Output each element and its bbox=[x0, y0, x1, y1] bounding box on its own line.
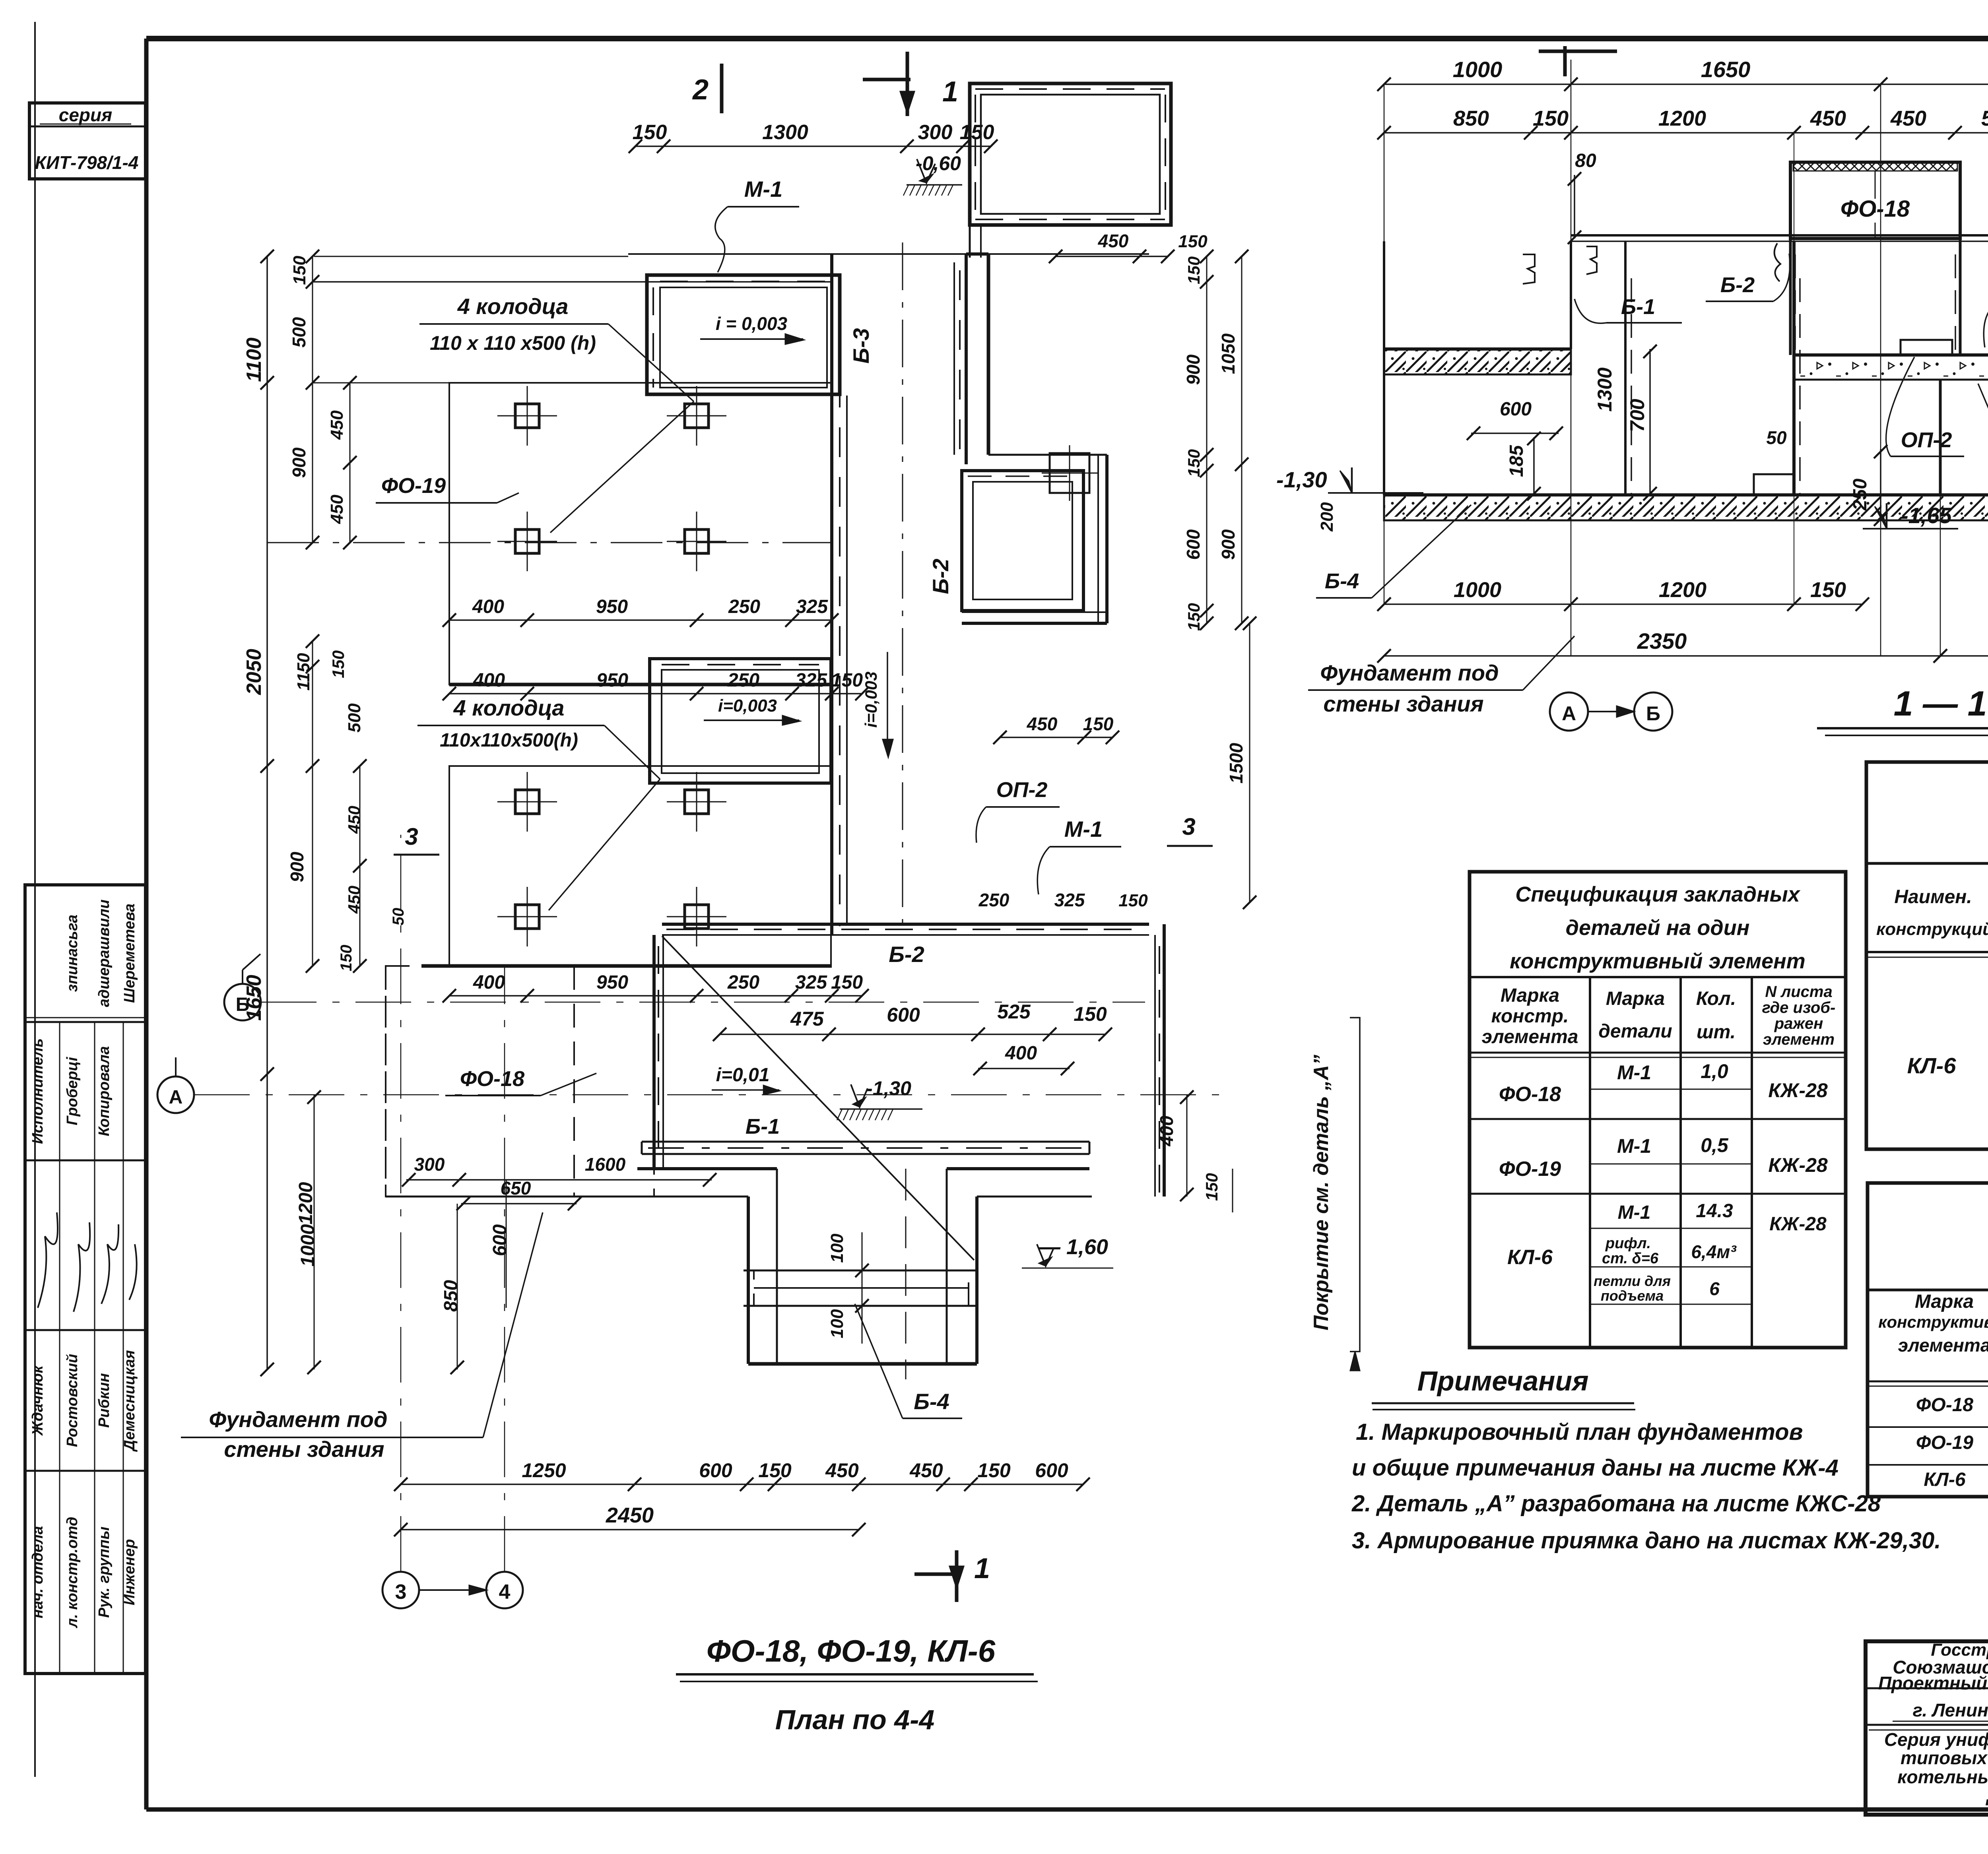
svg-text:150: 150 bbox=[338, 945, 355, 972]
svg-text:конструктивный элемент: конструктивный элемент bbox=[1510, 949, 1806, 973]
svg-text:М-1: М-1 bbox=[1064, 816, 1103, 842]
svg-text:300: 300 bbox=[918, 121, 953, 144]
svg-text:ражен: ражен bbox=[1774, 1015, 1823, 1032]
axis line (900 row) bbox=[267, 542, 831, 543]
section ground line bbox=[1571, 234, 1988, 237]
small cross square (OP-2 anchor) upper bbox=[1050, 453, 1089, 493]
svg-text:КЖ-28: КЖ-28 bbox=[1768, 1079, 1828, 1102]
svg-text:ФО-18: ФО-18 bbox=[1840, 196, 1910, 222]
svg-text:N листа: N листа bbox=[1765, 983, 1832, 1001]
svg-text:-1,30: -1,30 bbox=[866, 1077, 911, 1100]
section marks bottom: 1 bbox=[914, 1573, 960, 1576]
svg-text:110 х 110 х500 (h): 110 х 110 х500 (h) bbox=[430, 332, 596, 354]
OP-2 frames in section bbox=[1901, 340, 1952, 355]
svg-text:1650: 1650 bbox=[1701, 57, 1751, 82]
svg-text:3: 3 bbox=[1182, 813, 1195, 840]
svg-text:600: 600 bbox=[1035, 1459, 1068, 1482]
svg-text:110х110х500(h): 110х110х500(h) bbox=[440, 730, 578, 751]
pit left wall bbox=[1383, 241, 1385, 495]
svg-text:400: 400 bbox=[472, 596, 504, 617]
svg-text:Серия унифицированных: Серия унифицированных bbox=[1884, 1729, 1988, 1750]
FO-18 pedestal bbox=[1790, 162, 1960, 239]
M-1 slab rect (lower) bbox=[650, 659, 831, 783]
svg-text:1: 1 bbox=[942, 76, 958, 108]
svg-text:ст. δ=6: ст. δ=6 bbox=[1602, 1250, 1659, 1267]
svg-text:150: 150 bbox=[1178, 232, 1208, 251]
svg-text:150: 150 bbox=[1074, 1003, 1107, 1025]
svg-text:100: 100 bbox=[827, 1309, 847, 1338]
svg-text:150: 150 bbox=[633, 121, 667, 144]
top mark (section 4) bbox=[1563, 46, 1567, 76]
svg-text:150: 150 bbox=[1184, 449, 1203, 477]
in-room diagonal bbox=[662, 936, 974, 1260]
svg-text:рифл.: рифл. bbox=[1605, 1235, 1651, 1252]
svg-text:475: 475 bbox=[790, 1008, 824, 1030]
svg-text:600: 600 bbox=[887, 1004, 920, 1026]
channel KL-6 right wall bbox=[953, 262, 955, 455]
svg-text:Б-2: Б-2 bbox=[928, 559, 953, 594]
M-1 slab rect (upper) bbox=[647, 275, 840, 394]
svg-text:150: 150 bbox=[290, 256, 309, 285]
table: spec of precast & metal elements bbox=[1866, 762, 1988, 1149]
svg-text:КЛ-6: КЛ-6 bbox=[1507, 1246, 1553, 1269]
svg-text:Б-2: Б-2 bbox=[1720, 273, 1755, 297]
svg-text:300: 300 bbox=[414, 1154, 445, 1175]
svg-text:900: 900 bbox=[1183, 354, 1204, 385]
B-4 hatched beam bbox=[754, 1270, 969, 1306]
svg-text:i=0,003: i=0,003 bbox=[718, 696, 777, 716]
svg-text:где изоб-: где изоб- bbox=[1762, 999, 1836, 1016]
section top dims bbox=[1384, 83, 1988, 85]
section bottom dims bbox=[1384, 603, 1862, 605]
svg-text:ОП-2: ОП-2 bbox=[1901, 428, 1952, 452]
svg-text:500: 500 bbox=[345, 703, 364, 733]
upper-right room A bbox=[970, 83, 1171, 225]
svg-text:Б: Б bbox=[1646, 702, 1660, 725]
B-1 bracket shapes bbox=[1523, 254, 1535, 284]
wells (squares) lower bbox=[515, 790, 539, 814]
svg-text:600: 600 bbox=[1500, 399, 1532, 420]
svg-text:450: 450 bbox=[345, 886, 363, 914]
svg-text:стены здания: стены здания bbox=[224, 1437, 384, 1462]
svg-text:зпинасьга: зпинасьга bbox=[64, 915, 81, 992]
svg-text:3: 3 bbox=[395, 1581, 407, 1604]
svg-text:1300: 1300 bbox=[1594, 367, 1616, 411]
svg-text:450: 450 bbox=[327, 495, 347, 524]
svg-text:Ростовский: Ростовский bbox=[64, 1354, 81, 1447]
svg-text:1150: 1150 bbox=[294, 653, 313, 690]
svg-text:1: 1 bbox=[974, 1553, 990, 1584]
svg-text:Б-1: Б-1 bbox=[1621, 295, 1655, 319]
svg-text:850: 850 bbox=[1453, 107, 1489, 130]
svg-text:525: 525 bbox=[997, 1001, 1031, 1023]
svg-text:900: 900 bbox=[287, 851, 307, 882]
svg-text:стены здания: стены здания bbox=[1323, 691, 1483, 716]
svg-text:ФО-18, ФО-19, КЛ-6: ФО-18, ФО-19, КЛ-6 bbox=[707, 1633, 996, 1668]
svg-text:Инженер: Инженер bbox=[121, 1539, 138, 1606]
svg-text:М-1: М-1 bbox=[1617, 1135, 1651, 1157]
svg-text:i=0,01: i=0,01 bbox=[716, 1065, 770, 1086]
svg-text:Копировала: Копировала bbox=[96, 1046, 113, 1136]
svg-text:1 — 1: 1 — 1 bbox=[1894, 684, 1987, 723]
svg-text:1300: 1300 bbox=[762, 121, 808, 144]
svg-text:КЖ-28: КЖ-28 bbox=[1769, 1214, 1827, 1235]
walls under FO-18 bbox=[1789, 239, 1792, 355]
svg-text:-1,65: -1,65 bbox=[1901, 503, 1952, 528]
svg-text:450: 450 bbox=[1027, 714, 1058, 734]
svg-text:Исполнитель: Исполнитель bbox=[29, 1038, 46, 1144]
OP-2 room below bbox=[962, 471, 1083, 611]
svg-text:1200: 1200 bbox=[295, 1182, 316, 1224]
svg-text:л. констр.отд: л. констр.отд bbox=[64, 1517, 81, 1629]
svg-text:600: 600 bbox=[699, 1459, 732, 1482]
svg-text:Спецификация закладных: Спецификация закладных bbox=[1515, 882, 1800, 906]
svg-text:ФО-18: ФО-18 bbox=[1499, 1083, 1561, 1106]
svg-text:Марка: Марка bbox=[1606, 988, 1665, 1009]
svg-text:250: 250 bbox=[1850, 479, 1871, 511]
left dim chains bbox=[266, 256, 268, 1369]
svg-text:100: 100 bbox=[827, 1233, 847, 1263]
svg-text:450: 450 bbox=[1098, 231, 1129, 251]
svg-text:Ждачнюк: Ждачнюк bbox=[29, 1365, 46, 1436]
svg-text:петли для: петли для bbox=[1594, 1273, 1671, 1289]
svg-text:1650: 1650 bbox=[243, 975, 266, 1021]
svg-text:150: 150 bbox=[1202, 1173, 1221, 1201]
svg-text:325: 325 bbox=[796, 596, 828, 617]
svg-text:150: 150 bbox=[1184, 603, 1203, 631]
svg-text:80: 80 bbox=[1575, 150, 1596, 171]
pit bottom hatched strip bbox=[1384, 495, 1988, 520]
svg-text:500: 500 bbox=[1981, 107, 1988, 130]
svg-text:2: 2 bbox=[692, 74, 709, 106]
svg-text:250: 250 bbox=[978, 890, 1010, 910]
lower big room bbox=[662, 923, 1149, 926]
svg-text:150: 150 bbox=[1118, 891, 1148, 910]
svg-text:Проектный институт№1: Проектный институт№1 bbox=[1878, 1673, 1988, 1693]
svg-text:Б-4: Б-4 bbox=[914, 1389, 949, 1414]
svg-text:450: 450 bbox=[327, 410, 347, 440]
table: concrete and steel consumption bbox=[1868, 1183, 1988, 1497]
svg-text:нач. отдела: нач. отдела bbox=[29, 1526, 46, 1618]
channel KL-6 left wall bbox=[830, 254, 833, 935]
svg-text:450: 450 bbox=[909, 1459, 943, 1482]
svg-text:1. Маркировочный план фундамен: 1. Маркировочный план фундаментов bbox=[1356, 1419, 1803, 1445]
svg-text:Шереметева: Шереметева bbox=[121, 904, 138, 1003]
svg-text:подъема: подъема bbox=[1601, 1288, 1664, 1304]
svg-text:150: 150 bbox=[1810, 578, 1846, 602]
svg-text:600: 600 bbox=[1183, 529, 1204, 560]
B-2 squiggle wall top left of FO-18 bbox=[1774, 243, 1780, 281]
svg-text:450: 450 bbox=[1810, 107, 1846, 130]
svg-text:Марка: Марка bbox=[1915, 1291, 1974, 1312]
svg-text:котельных с котлами: котельных с котлами bbox=[1897, 1767, 1988, 1787]
svg-text:Кол.: Кол. bbox=[1696, 988, 1736, 1009]
svg-text:и общие примечания даны на лис: и общие примечания даны на листе КЖ-4 bbox=[1352, 1455, 1839, 1481]
svg-text:А: А bbox=[169, 1087, 183, 1108]
svg-text:серия: серия bbox=[59, 105, 112, 125]
axes circles 3 and 4 bbox=[382, 1572, 419, 1608]
svg-text:КЛ-6: КЛ-6 bbox=[1907, 1053, 1957, 1078]
svg-text:250: 250 bbox=[727, 972, 759, 993]
step 50 notch bbox=[1754, 474, 1794, 495]
svg-text:150: 150 bbox=[329, 650, 348, 678]
room floor lines and pit bbox=[637, 1167, 777, 1170]
svg-text:950: 950 bbox=[596, 596, 628, 617]
svg-text:400: 400 bbox=[1156, 1115, 1177, 1146]
svg-text:типовых проектов: типовых проектов bbox=[1901, 1747, 1988, 1768]
svg-text:Демесницкая: Демесницкая bbox=[121, 1350, 138, 1452]
svg-text:325: 325 bbox=[795, 670, 827, 691]
svg-text:50: 50 bbox=[1766, 427, 1787, 448]
svg-text:2050: 2050 bbox=[243, 649, 266, 695]
svg-text:50: 50 bbox=[390, 908, 407, 926]
svg-text:КЖ-28: КЖ-28 bbox=[1768, 1154, 1828, 1176]
svg-text:М-1: М-1 bbox=[1617, 1061, 1651, 1084]
svg-text:950: 950 bbox=[596, 670, 628, 691]
svg-text:Наимен.: Наимен. bbox=[1894, 886, 1972, 908]
svg-text:1200: 1200 bbox=[1658, 107, 1706, 130]
svg-text:деталей на один: деталей на один bbox=[1566, 916, 1750, 940]
svg-text:1600: 1600 bbox=[585, 1154, 626, 1175]
svg-text:6,4м³: 6,4м³ bbox=[1691, 1241, 1737, 1262]
svg-text:400: 400 bbox=[473, 670, 505, 691]
svg-text:900: 900 bbox=[289, 447, 309, 478]
svg-text:450: 450 bbox=[345, 806, 363, 834]
axis circles A, B bbox=[1550, 692, 1588, 731]
svg-text:250: 250 bbox=[728, 596, 760, 617]
svg-text:Покрытие см. деталь „А”: Покрытие см. деталь „А” bbox=[1310, 1055, 1333, 1330]
wall below room A bbox=[966, 252, 988, 256]
svg-text:Б-2: Б-2 bbox=[889, 942, 924, 967]
bottom dim chains bbox=[401, 1484, 1083, 1485]
title block bbox=[1866, 1641, 1988, 1815]
axis A and B circles bbox=[224, 984, 261, 1020]
svg-text:950: 950 bbox=[596, 972, 628, 993]
svg-text:400: 400 bbox=[1005, 1043, 1037, 1064]
left wall step bbox=[1570, 241, 1572, 349]
svg-text:г. Ленинград 1967г.: г. Ленинград 1967г. bbox=[1913, 1700, 1988, 1720]
svg-text:— 1,60: — 1,60 bbox=[1039, 1235, 1108, 1259]
inner left chains bbox=[312, 256, 313, 543]
svg-text:элемента: элемента bbox=[1482, 1026, 1578, 1047]
svg-text:Б-1: Б-1 bbox=[745, 1115, 780, 1138]
right-side plan dims bbox=[1206, 256, 1208, 623]
svg-text:14.3: 14.3 bbox=[1696, 1200, 1733, 1222]
FO-19 upper pit rect bbox=[449, 383, 831, 685]
FO-19 lower pit rect bbox=[449, 766, 831, 966]
svg-text:150: 150 bbox=[758, 1459, 792, 1482]
svg-text:Рибкин: Рибкин bbox=[96, 1373, 113, 1428]
svg-text:Рук. группы: Рук. группы bbox=[96, 1526, 113, 1617]
svg-text:1500: 1500 bbox=[1226, 743, 1246, 783]
svg-text:450: 450 bbox=[1890, 107, 1926, 130]
svg-text:185: 185 bbox=[1506, 445, 1527, 477]
svg-text:i = 0,003: i = 0,003 bbox=[716, 313, 788, 334]
plan top dim chain bbox=[635, 145, 991, 147]
B-1 beam bbox=[642, 1141, 1089, 1143]
450/150 dims top right of plan bbox=[1056, 256, 1168, 257]
svg-text:ФО-19: ФО-19 bbox=[1916, 1432, 1973, 1453]
svg-text:150: 150 bbox=[1184, 256, 1203, 284]
svg-text:Марка: Марка bbox=[1501, 985, 1559, 1006]
svg-text:150: 150 bbox=[831, 670, 863, 691]
svg-text:ФО-19: ФО-19 bbox=[381, 474, 446, 498]
series box bbox=[29, 103, 146, 179]
svg-text:600: 600 bbox=[489, 1224, 511, 1256]
bottom-left outline bbox=[386, 1196, 637, 1198]
svg-text:констр.: констр. bbox=[1491, 1006, 1569, 1027]
svg-text:-1,30: -1,30 bbox=[1276, 467, 1327, 492]
svg-text:ФО-18: ФО-18 bbox=[460, 1067, 524, 1091]
svg-text:2. Деталь „А” разработана на л: 2. Деталь „А” разработана на листе КЖС-2… bbox=[1351, 1491, 1881, 1517]
svg-text:детали: детали bbox=[1598, 1021, 1672, 1042]
channel centerline bbox=[902, 242, 903, 926]
svg-text:ОП-2: ОП-2 bbox=[996, 778, 1048, 802]
svg-text:КИТ-798/1-4: КИТ-798/1-4 bbox=[35, 152, 139, 173]
svg-text:1000: 1000 bbox=[1453, 57, 1503, 82]
left floor hatched strip bbox=[1384, 349, 1571, 374]
svg-text:500: 500 bbox=[289, 317, 309, 347]
right pit block bbox=[1939, 380, 1942, 495]
dim chain below lower block bbox=[449, 995, 862, 997]
svg-text:150: 150 bbox=[960, 121, 994, 144]
svg-text:150: 150 bbox=[977, 1459, 1011, 1482]
dim chain below upper block (400/950/250/325) bbox=[449, 619, 832, 621]
channel floor strip (right of pit) bbox=[1794, 355, 1988, 380]
svg-text:Фундамент под: Фундамент под bbox=[209, 1407, 387, 1432]
svg-text:700: 700 bbox=[1626, 399, 1648, 432]
svg-text:А: А bbox=[1562, 702, 1576, 725]
svg-text:850: 850 bbox=[441, 1280, 462, 1312]
svg-text:ФО-18: ФО-18 bbox=[1916, 1394, 1973, 1416]
svg-text:План по 4-4: План по 4-4 bbox=[775, 1704, 935, 1735]
svg-text:Гроберці: Гроберці bbox=[64, 1057, 81, 1125]
svg-text:2350: 2350 bbox=[1637, 628, 1687, 654]
pit inner walls bbox=[1624, 241, 1627, 495]
svg-text:Примечания: Примечания bbox=[1417, 1365, 1589, 1396]
svg-text:150: 150 bbox=[1083, 714, 1114, 734]
svg-text:1050: 1050 bbox=[1218, 333, 1239, 374]
svg-text:3: 3 bbox=[405, 823, 418, 850]
svg-text:1000: 1000 bbox=[1454, 578, 1501, 602]
svg-text:0,5: 0,5 bbox=[1701, 1134, 1729, 1156]
svg-text:адшерашвили: адшерашвили bbox=[96, 900, 113, 1007]
svg-text:Фундамент под: Фундамент под bbox=[1320, 660, 1499, 685]
table: spec of embedded parts bbox=[1470, 872, 1846, 1348]
svg-text:900: 900 bbox=[1218, 529, 1239, 560]
svg-text:4 колодца: 4 колодца bbox=[453, 695, 565, 720]
svg-text:250: 250 bbox=[727, 670, 759, 691]
svg-text:325: 325 bbox=[1054, 890, 1085, 910]
svg-text:1,0: 1,0 bbox=[1701, 1060, 1728, 1082]
svg-text:Б-4: Б-4 bbox=[1325, 569, 1359, 593]
svg-text:2450: 2450 bbox=[606, 1503, 654, 1527]
svg-text:6: 6 bbox=[1709, 1278, 1720, 1299]
svg-text:400: 400 bbox=[473, 972, 505, 993]
page frame bbox=[34, 22, 36, 1777]
svg-text:ФО-19: ФО-19 bbox=[1499, 1158, 1561, 1181]
svg-text:Б-3: Б-3 bbox=[848, 328, 874, 363]
svg-text:элемент: элемент bbox=[1763, 1031, 1835, 1048]
svg-text:М-1: М-1 bbox=[1618, 1202, 1651, 1223]
plan top boundary lines bbox=[628, 253, 1149, 255]
svg-text:КЛ-6: КЛ-6 bbox=[1924, 1469, 1965, 1490]
wells (squares) upper bbox=[515, 404, 539, 428]
svg-text:4: 4 bbox=[499, 1581, 511, 1604]
svg-text:200: 200 bbox=[1317, 502, 1337, 532]
svg-text:1100: 1100 bbox=[243, 337, 266, 382]
svg-text:1000: 1000 bbox=[297, 1224, 318, 1266]
svg-text:шт.: шт. bbox=[1697, 1022, 1736, 1043]
FO-18 pit (dashed) bbox=[386, 966, 654, 1197]
svg-text:элемента: элемента bbox=[1898, 1335, 1988, 1356]
svg-text:325: 325 bbox=[795, 972, 827, 993]
svg-text:150: 150 bbox=[1533, 107, 1569, 130]
svg-text:М-1: М-1 bbox=[744, 176, 782, 202]
left stamp table bbox=[25, 885, 146, 1674]
svg-text:1200: 1200 bbox=[1659, 578, 1706, 602]
svg-text:конструкций: конструкций bbox=[1876, 919, 1988, 939]
svg-text:3. Армирование приямка дано на: 3. Армирование приямка дано на листах КЖ… bbox=[1352, 1528, 1941, 1553]
svg-text:4 колодца: 4 колодца bbox=[457, 294, 569, 319]
svg-text:конструктивн.: конструктивн. bbox=[1878, 1313, 1988, 1331]
svg-text:450: 450 bbox=[825, 1459, 859, 1482]
svg-text:1250: 1250 bbox=[522, 1459, 566, 1482]
svg-text:150: 150 bbox=[831, 972, 863, 993]
svg-text:i=0,003: i=0,003 bbox=[862, 671, 880, 727]
